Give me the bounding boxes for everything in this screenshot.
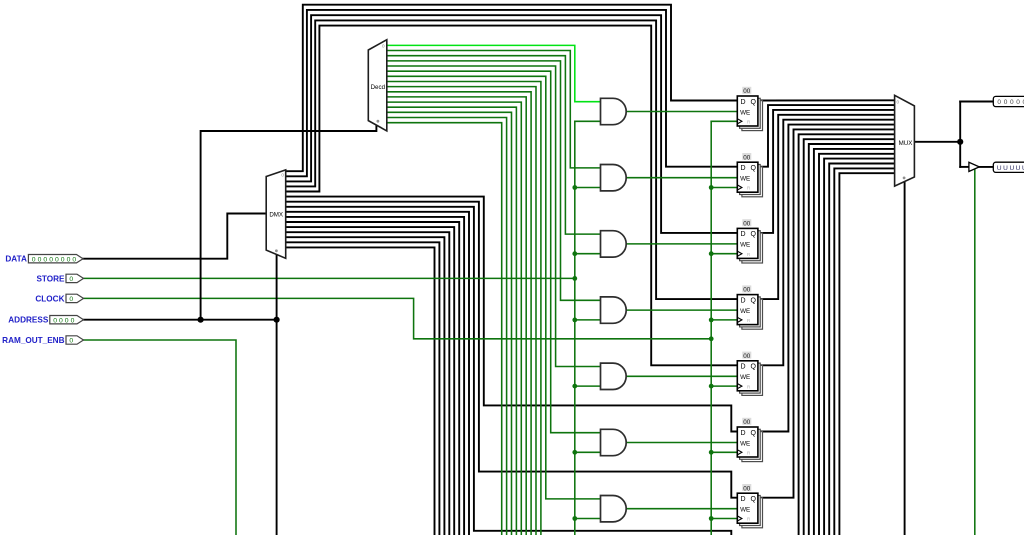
- svg-text:D: D: [741, 364, 746, 371]
- svg-text:WE: WE: [740, 507, 750, 514]
- svg-text:U: U: [997, 165, 1002, 172]
- svg-text:00: 00: [743, 221, 751, 228]
- svg-text:STORE: STORE: [36, 274, 65, 283]
- svg-text:0: 0: [1016, 99, 1020, 106]
- svg-text:0: 0: [55, 256, 59, 263]
- svg-text:R: R: [747, 252, 751, 258]
- svg-text:WE: WE: [740, 109, 750, 116]
- svg-text:0: 0: [1004, 99, 1008, 106]
- svg-text:DATA: DATA: [5, 255, 27, 264]
- svg-text:00: 00: [743, 419, 751, 426]
- svg-text:Decd: Decd: [371, 84, 386, 91]
- svg-text:0: 0: [281, 173, 284, 178]
- svg-text:WE: WE: [740, 440, 750, 447]
- svg-text:0: 0: [38, 256, 42, 263]
- svg-text:R: R: [747, 384, 751, 390]
- svg-text:Q: Q: [750, 231, 756, 238]
- svg-text:0: 0: [69, 296, 73, 303]
- svg-text:00: 00: [743, 353, 751, 360]
- svg-text:Q: Q: [750, 430, 756, 437]
- svg-text:0: 0: [382, 44, 385, 49]
- svg-text:R: R: [747, 186, 751, 192]
- svg-text:U: U: [1003, 165, 1008, 172]
- svg-text:00: 00: [743, 485, 751, 492]
- svg-text:WE: WE: [740, 242, 750, 249]
- svg-text:0: 0: [49, 256, 53, 263]
- svg-text:RAM_OUT_ENB: RAM_OUT_ENB: [2, 336, 64, 345]
- svg-text:DMX: DMX: [269, 212, 283, 219]
- svg-text:D: D: [741, 430, 746, 437]
- svg-text:0: 0: [59, 317, 63, 324]
- svg-text:WE: WE: [740, 308, 750, 315]
- svg-text:0: 0: [897, 100, 900, 105]
- svg-text:Q: Q: [750, 99, 756, 106]
- svg-text:R: R: [747, 451, 751, 457]
- svg-text:00: 00: [743, 287, 751, 294]
- svg-text:R: R: [747, 517, 751, 523]
- svg-text:D: D: [741, 297, 746, 304]
- svg-text:Q: Q: [750, 496, 756, 503]
- svg-text:00: 00: [743, 88, 751, 95]
- svg-text:ADDRESS: ADDRESS: [8, 316, 49, 325]
- svg-text:D: D: [741, 231, 746, 238]
- svg-text:D: D: [741, 99, 746, 106]
- svg-text:WE: WE: [740, 176, 750, 183]
- svg-text:Q: Q: [750, 364, 756, 371]
- svg-text:0: 0: [71, 317, 75, 324]
- svg-text:WE: WE: [740, 374, 750, 381]
- svg-text:U: U: [1016, 165, 1021, 172]
- svg-text:0: 0: [997, 99, 1001, 106]
- svg-text:0: 0: [1010, 99, 1014, 106]
- svg-text:Q: Q: [750, 297, 756, 304]
- svg-text:0: 0: [67, 256, 71, 263]
- svg-text:0: 0: [65, 317, 69, 324]
- svg-text:Q: Q: [750, 165, 756, 172]
- svg-text:U: U: [1009, 165, 1014, 172]
- svg-text:D: D: [741, 496, 746, 503]
- svg-text:R: R: [747, 318, 751, 324]
- svg-text:0: 0: [72, 256, 76, 263]
- svg-text:0: 0: [53, 317, 57, 324]
- svg-text:0: 0: [43, 256, 47, 263]
- svg-text:0: 0: [69, 276, 73, 283]
- svg-text:MUX: MUX: [899, 140, 913, 147]
- svg-text:CLOCK: CLOCK: [35, 294, 64, 303]
- svg-text:0: 0: [61, 256, 65, 263]
- svg-text:0: 0: [32, 256, 36, 263]
- svg-text:D: D: [741, 165, 746, 172]
- svg-text:R: R: [747, 120, 751, 126]
- svg-text:00: 00: [743, 154, 751, 161]
- svg-text:0: 0: [69, 338, 73, 345]
